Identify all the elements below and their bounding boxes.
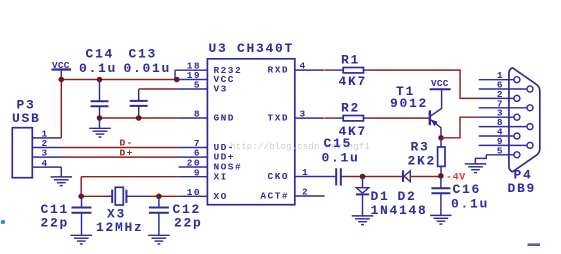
svg-text:D1: D1 <box>371 189 390 204</box>
svg-text:DB9: DB9 <box>508 181 537 196</box>
junction dot C13 bottom <box>136 115 142 121</box>
transistor T1 9012 <box>390 84 442 138</box>
svg-text:1N4148: 1N4148 <box>371 203 428 218</box>
ground under C14 junction <box>89 118 111 137</box>
svg-text:4K7: 4K7 <box>339 74 368 89</box>
svg-text:3: 3 <box>300 109 307 120</box>
DB9 pin 3 <box>479 108 520 121</box>
DB9 pin 9 <box>479 136 533 149</box>
capacitor C11 <box>41 196 92 235</box>
wire D+ net <box>61 147 207 158</box>
capacitor C13 <box>124 47 172 118</box>
pin 1 <box>32 137 61 139</box>
pin 6 UD+ <box>194 148 235 163</box>
wire VCC net horizontal <box>61 79 177 81</box>
wire D- net <box>61 138 207 149</box>
resistor R3 <box>408 138 446 176</box>
junction dot D1 top <box>360 174 366 180</box>
pin 19 VCC <box>177 70 235 85</box>
svg-text:5: 5 <box>194 80 201 91</box>
pin 5 V3 <box>194 80 228 95</box>
svg-text:RXD: RXD <box>268 65 289 76</box>
svg-text:4: 4 <box>300 61 307 72</box>
wire XO net <box>159 195 208 197</box>
svg-text:C15: C15 <box>324 136 353 151</box>
junction dot C14 top <box>97 77 103 83</box>
svg-text:2: 2 <box>302 187 309 198</box>
svg-text:0.1u: 0.1u <box>451 196 489 211</box>
diode D1 1N4148 <box>356 177 428 218</box>
svg-text:9: 9 <box>194 167 201 178</box>
svg-text:5: 5 <box>497 145 504 156</box>
node VCC power symbol at T1 <box>430 78 451 89</box>
svg-text:22p: 22p <box>41 216 70 231</box>
svg-text:USB: USB <box>12 111 41 126</box>
pin 4 RXD <box>268 61 324 76</box>
svg-text:D+: D+ <box>120 147 134 158</box>
DB9 pin 8 <box>479 117 533 130</box>
DB9 pin 2 <box>479 89 520 102</box>
svg-text:TXD: TXD <box>268 113 289 124</box>
capacitor C16 <box>431 176 489 215</box>
svg-text:1: 1 <box>302 167 309 178</box>
wire crystal left <box>81 195 103 197</box>
pin 18 R232 <box>175 61 242 76</box>
pin 20 NOS# <box>179 158 242 173</box>
svg-text:V3: V3 <box>214 83 228 94</box>
pin 2 ACT# <box>260 187 324 202</box>
svg-text:XO: XO <box>214 191 228 202</box>
svg-text:ACT#: ACT# <box>260 191 289 202</box>
svg-text:R1: R1 <box>341 53 360 68</box>
pin 2 <box>32 147 62 149</box>
crystal X3 12MHz <box>96 187 144 235</box>
ground under C11 <box>71 235 93 244</box>
stray teal dot <box>1 220 5 224</box>
pin 3 TXD <box>268 109 324 124</box>
wire RXD to DB9 pin2 <box>374 70 479 98</box>
svg-text:9012: 9012 <box>390 96 428 111</box>
pin 4 <box>32 166 61 168</box>
pin 9 XI <box>194 167 228 182</box>
svg-text:8: 8 <box>194 109 201 120</box>
pin 1 CKO <box>268 167 337 182</box>
DB9 pin 7 <box>479 98 533 111</box>
junction dot -4V node <box>438 173 444 179</box>
junction dot VCC left <box>59 77 65 83</box>
junction dot T1 emitter <box>438 135 444 141</box>
DB9 pin 6 <box>479 80 533 93</box>
connector P4 DB9 <box>508 68 540 196</box>
svg-text:0.1u: 0.1u <box>79 61 117 76</box>
DB9 pin 1 <box>479 70 520 83</box>
capacitor C14 <box>79 47 117 118</box>
svg-text:0.1u: 0.1u <box>322 150 360 165</box>
pin 3 <box>32 156 62 158</box>
ground under C16 <box>430 215 452 224</box>
op IC U3 CH340T <box>207 41 294 205</box>
pin 8 GND <box>194 109 235 124</box>
svg-text:XI: XI <box>214 171 228 182</box>
svg-text:D2: D2 <box>398 189 417 204</box>
svg-text:CKO: CKO <box>268 171 289 182</box>
svg-text:22p: 22p <box>174 216 203 231</box>
wire XI net <box>81 177 207 197</box>
svg-text:12MHz: 12MHz <box>96 220 144 235</box>
wire emitter to DB9 pin3 <box>441 117 479 138</box>
junction dot C14 bottom <box>97 115 103 121</box>
wire pin18-pin19 tie <box>174 70 176 79</box>
junction dot pin19 <box>174 77 180 83</box>
resistor R1 <box>324 53 373 89</box>
pin 7 UD- <box>194 138 235 153</box>
svg-text:C14: C14 <box>86 47 115 62</box>
connector P3 USB <box>12 97 62 177</box>
wire CKO node <box>341 176 346 178</box>
ground under C12 <box>148 235 170 244</box>
wire crystal right <box>126 195 147 197</box>
svg-text:GND: GND <box>214 113 235 124</box>
node VCC power symbol left <box>52 60 72 80</box>
svg-text:10: 10 <box>187 187 201 198</box>
junction dot crystal right <box>156 194 162 200</box>
svg-text:R3: R3 <box>411 139 430 154</box>
junction dot crystal left <box>78 194 84 200</box>
DB9 pin 5 <box>486 145 520 158</box>
svg-text:U3 CH340T: U3 CH340T <box>209 41 295 56</box>
DB9 pin 4 <box>479 127 520 140</box>
diode D2 <box>398 170 417 203</box>
wire D2 to -4V node <box>410 176 441 178</box>
capacitor C12 <box>149 196 203 235</box>
ground under D1 <box>352 216 374 225</box>
stray dash bottom right <box>528 243 541 246</box>
wire TXD to T1 base <box>374 117 430 119</box>
wire V3 net <box>139 88 208 90</box>
svg-text:2K2: 2K2 <box>408 153 437 168</box>
svg-text:C13: C13 <box>129 47 158 62</box>
ground at DB9 pin 5 <box>465 155 487 173</box>
wire VCC to USB pin1 <box>60 80 62 138</box>
svg-text:0.01u: 0.01u <box>124 61 172 76</box>
svg-text:R2: R2 <box>341 101 360 116</box>
pin 10 XO <box>187 187 228 202</box>
svg-text:VCC: VCC <box>431 78 449 89</box>
capacitor C15 <box>322 136 360 185</box>
svg-text:C16: C16 <box>453 182 482 197</box>
wire GND net <box>100 117 208 119</box>
resistor R2 <box>324 101 373 139</box>
ground at USB pin 4 <box>51 167 73 186</box>
